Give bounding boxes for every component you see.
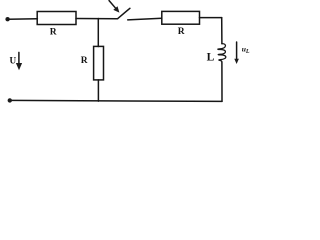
switch actuation arrow shaft	[109, 1, 116, 9]
wire top-left from terminal to R1	[8, 18, 37, 21]
wire from inductor bottom to bottom-right corner	[221, 62, 223, 101]
wire from R1 to switch hinge	[76, 18, 118, 20]
wire from switch right contact to R3	[128, 18, 162, 20]
inductor L coil (three right-bulging turns)	[218, 44, 226, 62]
wire from R3 to top-right corner	[200, 17, 222, 19]
arrow head: uL reference	[234, 59, 239, 64]
switch actuation arrow head	[113, 6, 119, 12]
resistor R1 (series box, top-left)	[37, 12, 76, 25]
arrow: uL reference (down) shaft	[236, 42, 238, 60]
node: junction of middle branch on top wire	[97, 19, 99, 47]
node: bottom input terminal dot	[8, 98, 12, 102]
svg-text:L: L	[207, 51, 215, 63]
svg-text:U: U	[10, 56, 17, 66]
wire from R2 bottom to bottom rail	[97, 80, 99, 101]
svg-text:R: R	[81, 56, 88, 66]
svg-text:uL: uL	[242, 45, 250, 55]
arrow: U source reference (down) shaft	[18, 52, 20, 63]
resistor R3 (series box, top-right)	[162, 11, 200, 24]
svg-text:R: R	[178, 27, 185, 37]
node: top input terminal dot	[5, 17, 9, 21]
resistor R2 (middle shunt box)	[94, 46, 104, 80]
arrow head: U reference	[16, 63, 22, 70]
wire right branch down to inductor	[221, 18, 223, 44]
svg-text:R: R	[50, 27, 57, 37]
switch S blade (open)	[118, 8, 130, 18]
wire bottom rail	[10, 100, 222, 101]
